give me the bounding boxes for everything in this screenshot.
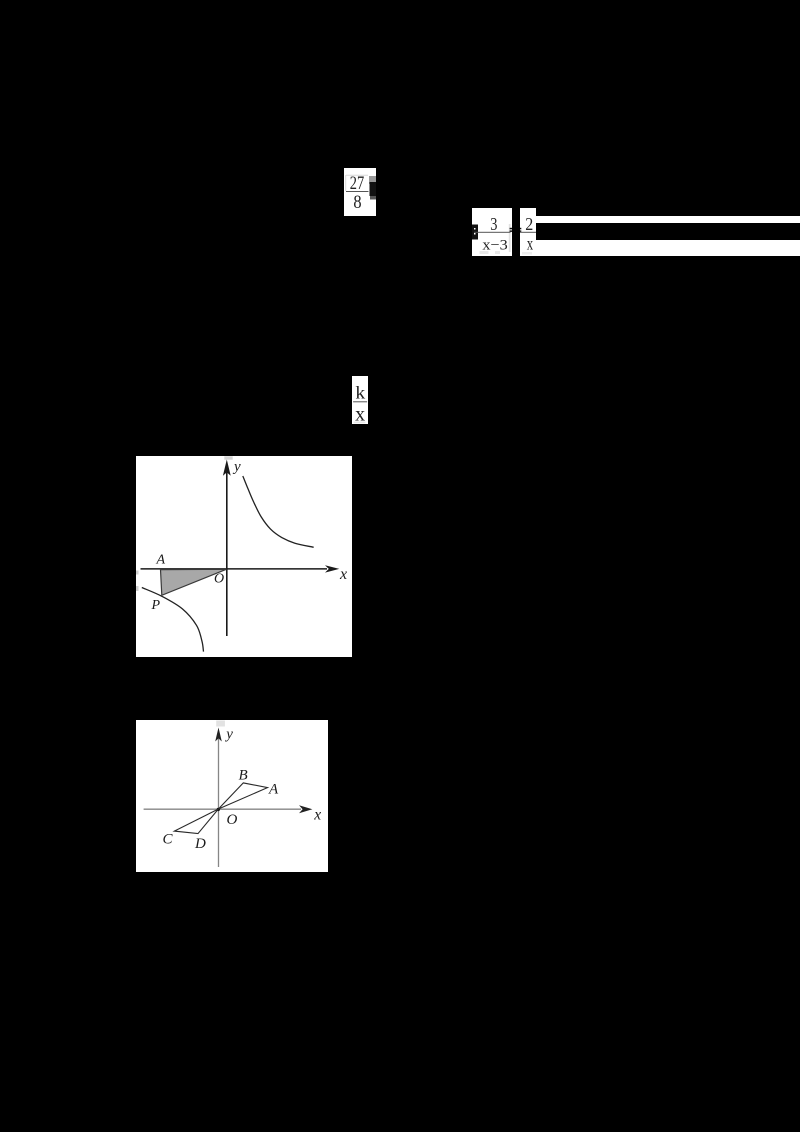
- svg-text:A: A: [268, 781, 279, 797]
- svg-text:27: 27: [350, 174, 364, 194]
- svg-text:2: 2: [525, 214, 533, 234]
- svg-text:x: x: [339, 566, 347, 583]
- svg-text:B: B: [238, 767, 247, 783]
- svg-text:y: y: [224, 726, 233, 742]
- svg-text:P: P: [150, 598, 160, 613]
- svg-text:k: k: [355, 382, 365, 402]
- svg-text:x: x: [313, 806, 321, 823]
- svg-text:A: A: [155, 553, 165, 568]
- svg-text:O: O: [214, 572, 224, 587]
- svg-text:D: D: [194, 836, 206, 852]
- svg-text:x: x: [527, 234, 533, 254]
- svg-text:C: C: [162, 831, 173, 847]
- svg-text:O: O: [226, 812, 237, 828]
- svg-text:x: x: [355, 401, 365, 424]
- svg-text:3: 3: [490, 214, 497, 234]
- svg-text:8: 8: [353, 193, 361, 213]
- svg-text:y: y: [232, 459, 241, 475]
